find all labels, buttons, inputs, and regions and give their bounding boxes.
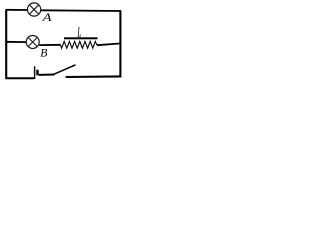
wire inductor to right vertical — [97, 44, 120, 46]
lamp B — [26, 36, 39, 49]
wire bottom left segment — [6, 77, 35, 79]
lamp A — [27, 3, 40, 16]
wire right vertical — [119, 10, 121, 77]
battery short plate — [36, 70, 38, 76]
inductor L zigzag winding — [61, 41, 98, 48]
svg-text:A: A — [41, 10, 52, 24]
svg-text:B: B — [40, 47, 47, 60]
inductor L core bar — [64, 37, 98, 39]
wire left vertical — [5, 10, 7, 79]
wire middle left segment — [6, 41, 27, 43]
battery long plate — [34, 66, 36, 79]
wire top right segment — [41, 9, 121, 12]
svg-text:L: L — [77, 24, 82, 39]
switch blade — [54, 65, 76, 74]
wire top left segment — [6, 9, 28, 11]
wire battery to switch — [39, 74, 55, 76]
wire lamp B to inductor — [39, 44, 60, 46]
wire switch to bottom right — [66, 75, 122, 78]
